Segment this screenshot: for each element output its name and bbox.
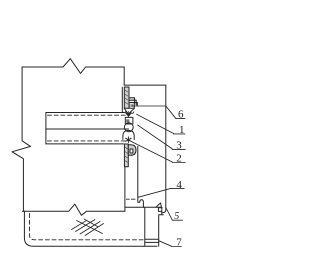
svg-text:7: 7 xyxy=(176,237,182,249)
label 4 underline xyxy=(171,188,184,190)
lower door inner vertical xyxy=(137,146,139,202)
leader line 1 xyxy=(137,114,174,133)
gasket bellows box xyxy=(125,117,133,124)
base ledge to hook xyxy=(138,206,162,208)
lower gasket P-piece hatched bar xyxy=(124,144,128,167)
leader line 4 xyxy=(138,188,171,197)
bottom slab outer left and bottom edge xyxy=(24,211,157,246)
svg-text:5: 5 xyxy=(174,211,179,222)
funnel hook marks xyxy=(125,112,134,114)
label 3 underline xyxy=(172,148,185,150)
label 5 underline xyxy=(172,219,182,221)
leader line 3 xyxy=(138,125,173,149)
cabinet right upper vertical xyxy=(123,67,125,85)
bottom slab inner dashed liner xyxy=(30,214,144,240)
retainer step bracket 3 xyxy=(129,103,137,106)
cabinet top edge with break symbol xyxy=(22,59,124,74)
leader line 7 xyxy=(159,241,172,247)
hook clip 5 triangle xyxy=(156,203,162,207)
label 2 underline xyxy=(172,162,185,164)
door bottom edge xyxy=(125,206,138,208)
gasket bulb lower arch xyxy=(123,130,134,139)
leader line 6 xyxy=(132,106,175,118)
cabinet bottom slab top edge with break symbol xyxy=(22,204,124,215)
mullion band left edge xyxy=(45,113,47,144)
door bottom bump xyxy=(138,200,144,207)
front base vertical xyxy=(144,207,146,246)
lower door face vertical xyxy=(124,167,126,212)
mullion band upper dashed liner xyxy=(48,114,129,116)
label 1 underline xyxy=(173,133,185,135)
insulation scribble xyxy=(72,219,104,236)
svg-text:1: 1 xyxy=(179,124,185,136)
junction star node xyxy=(126,137,132,143)
mullion band top solid line xyxy=(46,112,125,114)
mullion band lower dashed liner xyxy=(48,140,129,142)
hook clip 5 lip xyxy=(162,208,166,213)
gasket retainer 6 hatched bar xyxy=(124,87,129,108)
mullion band middle solid line xyxy=(46,128,129,130)
cabinet front vertical xyxy=(165,85,167,208)
retainer step bracket 2 xyxy=(129,100,136,105)
svg-text:6: 6 xyxy=(178,109,184,121)
svg-text:3: 3 xyxy=(176,140,182,152)
retainer funnel taper xyxy=(124,108,134,112)
hook clip 5 tab xyxy=(158,208,161,212)
leader line 5 xyxy=(166,209,172,220)
svg-text:4: 4 xyxy=(176,179,182,191)
hook clip 5 step xyxy=(159,207,164,246)
cabinet left edge upper with break symbol xyxy=(12,67,30,211)
gasket bulb upper xyxy=(124,123,133,132)
cabinet top-right horizontal ledge xyxy=(124,84,166,86)
wedge arrow at band top right xyxy=(125,113,132,118)
P-piece loop xyxy=(128,145,136,156)
base cross line upper xyxy=(145,238,159,240)
svg-text:2: 2 xyxy=(176,153,182,165)
label 7 underline xyxy=(171,246,181,248)
retainer step bracket 1 xyxy=(129,98,135,104)
retainer small box xyxy=(129,103,134,109)
upper door face vertical xyxy=(121,87,123,112)
base cross line lower xyxy=(145,241,159,243)
door bottom dashes xyxy=(126,198,135,200)
leader line 2 xyxy=(129,140,173,162)
label 6 underline xyxy=(175,117,185,119)
P-piece loop hole xyxy=(130,149,133,153)
mullion band bottom solid line xyxy=(46,143,124,145)
